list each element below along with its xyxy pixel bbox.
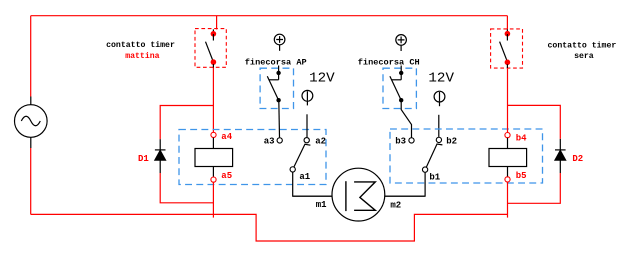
svg-text:b2: b2 (446, 137, 457, 147)
svg-text:finecorsa AP: finecorsa AP (245, 57, 307, 67)
wire left vertical from bus to AC source (30, 16, 32, 97)
svg-text:a5: a5 (221, 171, 232, 181)
node b2 (436, 137, 441, 142)
wire b1 to motor m2 (385, 172, 425, 196)
lamp right (434, 91, 445, 106)
svg-text:finecorsa CH: finecorsa CH (358, 57, 420, 67)
node a4 (211, 132, 216, 137)
svg-text:12V: 12V (309, 71, 335, 87)
wire left vertical from AC source to bottom bus (30, 148, 32, 214)
svg-text:b5: b5 (516, 171, 527, 181)
contatto timer mattina S1 (195, 29, 226, 68)
wire bottom bus with detour (31, 214, 508, 241)
finecorsa CH switch (383, 66, 416, 109)
svg-text:b3: b3 (395, 137, 406, 147)
wire branch to D2 (508, 105, 561, 138)
blue dashed box relay B group (390, 129, 543, 183)
wire top bus (31, 15, 508, 17)
svg-text:contatto timer: contatto timer (106, 40, 175, 50)
relay coil B (489, 138, 527, 177)
svg-text:a3: a3 (264, 137, 275, 147)
svg-text:sera: sera (574, 52, 594, 61)
blue dashed box relay A group (179, 130, 326, 185)
diode D1 (155, 139, 166, 173)
wire branch to D1 (160, 106, 213, 140)
wire a1 to motor m1 (293, 172, 332, 196)
motor M (293, 168, 425, 221)
wire finecorsa CH to b3 (401, 100, 411, 138)
wire drop from top bus to timer sera (506, 16, 508, 30)
AC source V1 (15, 97, 48, 149)
terminal plus CH (396, 35, 407, 51)
svg-text:a1: a1 (299, 172, 310, 182)
lever a1-a2 (294, 144, 311, 167)
node b4 (505, 133, 510, 138)
wire lamp to a2 (306, 114, 308, 137)
svg-text:m1: m1 (316, 200, 327, 210)
lever b1-b2 (426, 144, 442, 167)
svg-text:contatto timer: contatto timer (548, 40, 617, 50)
wire D2 bottom to b5 column (508, 173, 561, 203)
diode D2 (555, 139, 566, 173)
wire a5 to bottom bus (212, 182, 214, 217)
wire finecorsa AP to a3 (278, 100, 281, 137)
svg-text:D2: D2 (572, 154, 583, 164)
wire timer mattina to relay a4 (212, 64, 214, 68)
finecorsa AP switch (260, 66, 293, 109)
node b5 (505, 177, 510, 182)
svg-text:a2: a2 (315, 137, 326, 147)
wire b5 to bottom bus (507, 182, 509, 218)
wire lamp to b2 (438, 115, 440, 137)
svg-text:a4: a4 (221, 132, 232, 142)
wire timer sera to relay b4 (506, 64, 508, 68)
svg-text:mattina: mattina (125, 51, 159, 61)
svg-text:b1: b1 (429, 172, 440, 182)
contatto timer sera S2 (491, 29, 523, 68)
svg-text:D1: D1 (138, 154, 149, 164)
node a5 (211, 177, 216, 182)
node b3 (409, 138, 414, 143)
node b1 (422, 167, 427, 172)
svg-text:b4: b4 (516, 133, 527, 143)
node a1 (290, 167, 295, 172)
terminal plus AP (274, 34, 285, 51)
relay coil A (195, 138, 233, 177)
node a2 (304, 138, 309, 143)
svg-text:12V: 12V (428, 71, 454, 87)
wire drop from top bus to timer mattina (216, 16, 218, 30)
wire D1 bottom to a5 column (160, 173, 213, 203)
node a3 (277, 138, 282, 143)
lamp left (302, 90, 313, 105)
svg-text:m2: m2 (390, 201, 401, 211)
